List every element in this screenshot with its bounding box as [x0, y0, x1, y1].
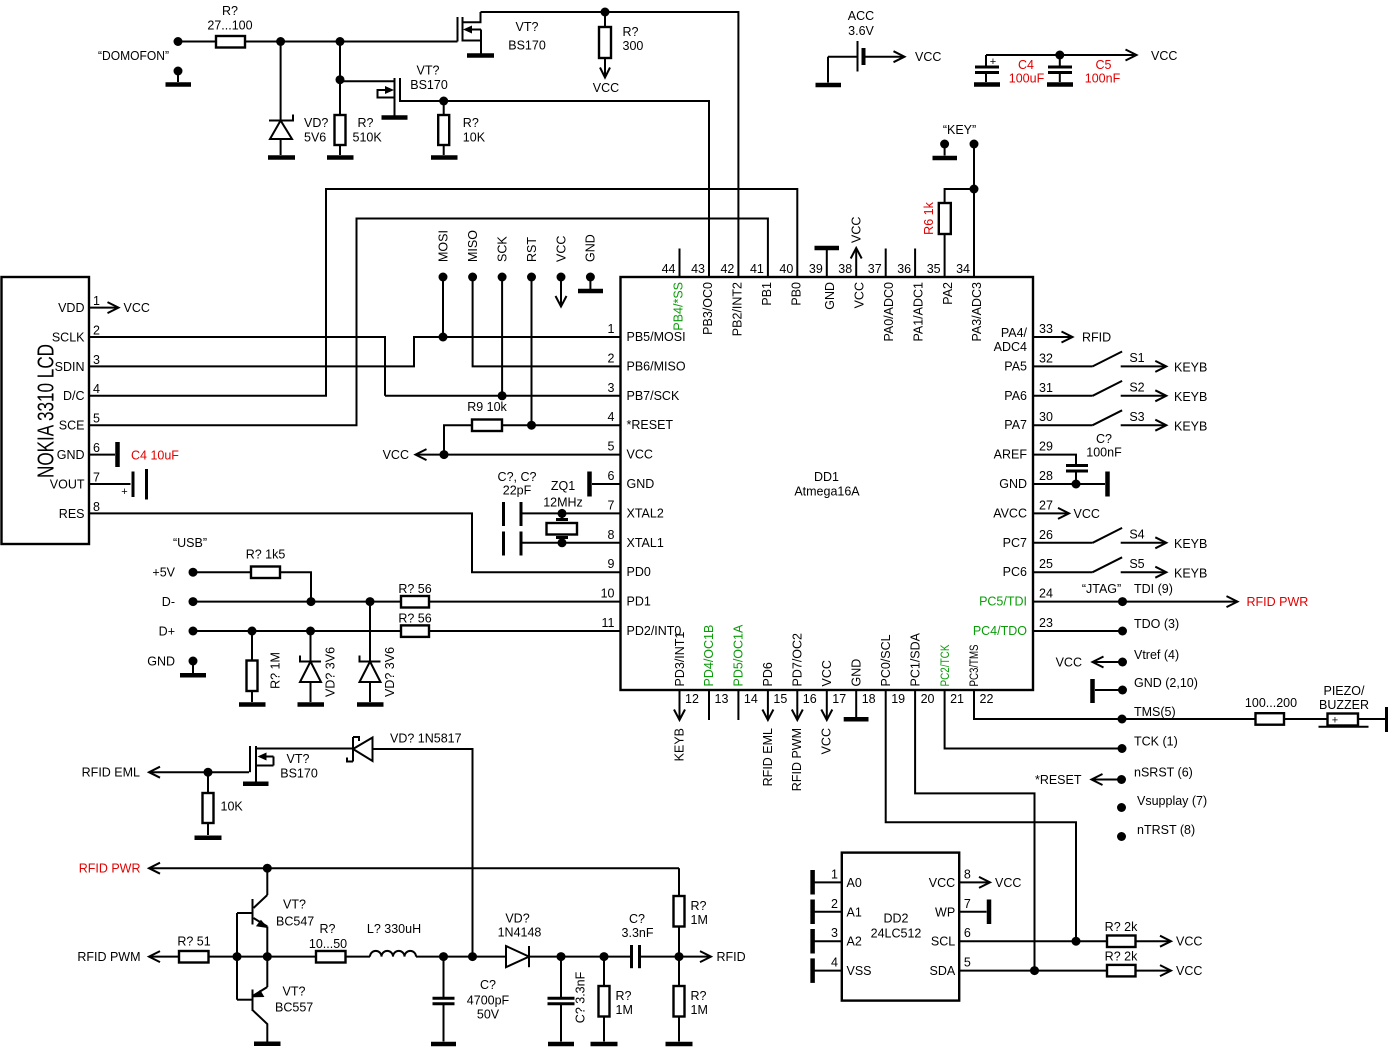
arrow battery to VCC — [866, 50, 942, 64]
svg-text:RFID PWR: RFID PWR — [79, 862, 141, 876]
junction node at 510K — [336, 37, 345, 46]
transistor VT? BS170 (Q2, lower) — [378, 64, 448, 116]
svg-text:Vtref (4): Vtref (4) — [1134, 648, 1179, 662]
svg-text:PD5/OC1A: PD5/OC1A — [732, 624, 746, 686]
transistor VT? BC547 — [237, 868, 314, 956]
MCU right pin 26 PC7 — [1003, 528, 1053, 550]
svg-text:VCC: VCC — [1176, 935, 1202, 949]
transistor VT? BS170 (Q3 RFID EML) — [250, 746, 353, 782]
svg-text:KEYB: KEYB — [1174, 390, 1207, 404]
svg-text:1M: 1M — [691, 1003, 708, 1017]
MCU right pin 29 AREF — [994, 440, 1053, 462]
svg-text:VCC: VCC — [627, 448, 653, 462]
LCD pin 1 VDD — [58, 294, 150, 315]
Vsupplay (7) terminal — [1117, 794, 1207, 812]
svg-text:10: 10 — [601, 587, 615, 601]
MCU right pin 27 AVCC — [993, 498, 1053, 520]
svg-text:VCC: VCC — [554, 236, 568, 262]
svg-text:VCC: VCC — [820, 660, 834, 686]
svg-text:PA1/ADC1: PA1/ADC1 — [911, 282, 925, 342]
svg-text:+: + — [1332, 715, 1338, 727]
junction R1M shunt node — [600, 952, 609, 961]
svg-text:RFID EML: RFID EML — [82, 766, 140, 780]
svg-text:A1: A1 — [847, 905, 862, 919]
svg-text:3: 3 — [831, 926, 838, 940]
svg-text:C?: C? — [480, 978, 496, 992]
arrow to VCC from R300 — [593, 58, 619, 95]
svg-text:13: 13 — [715, 692, 729, 706]
svg-text:VCC: VCC — [1074, 507, 1100, 521]
zener diode VD? 5V6 — [269, 42, 328, 156]
svg-text:VT?: VT? — [516, 20, 539, 34]
svg-text:27: 27 — [1039, 498, 1053, 512]
svg-text:R? 1k5: R? 1k5 — [246, 548, 286, 562]
resistor R? 10...50 — [309, 922, 370, 963]
svg-text:*RESET: *RESET — [627, 418, 674, 432]
svg-text:VT?: VT? — [287, 752, 310, 766]
svg-text:VCC: VCC — [820, 728, 834, 754]
pin 14 stub — [737, 690, 739, 720]
svg-text:PD4/OC1B: PD4/OC1B — [702, 625, 716, 687]
svg-text:510K: 510K — [353, 131, 383, 145]
wire pin 19 PC0/SCL to EEPROM SCL — [886, 690, 1076, 941]
IC DD1 Atmega16A body — [621, 277, 1034, 690]
pin 12 arrow KEYB — [672, 690, 686, 761]
svg-text:18: 18 — [862, 692, 876, 706]
net RFID arrow — [679, 950, 746, 964]
node "KEY" terminals — [940, 123, 978, 149]
ground for VT2 source — [382, 115, 408, 120]
svg-text:GND: GND — [584, 234, 598, 262]
svg-text:3: 3 — [608, 381, 615, 395]
svg-text:R?: R? — [222, 4, 238, 18]
svg-text:3.6V: 3.6V — [848, 24, 874, 38]
svg-text:2: 2 — [608, 351, 615, 365]
ground for VT1 source — [467, 53, 494, 58]
svg-text:12MHz: 12MHz — [543, 496, 583, 510]
capacitor C? 22pF upper — [504, 502, 621, 526]
svg-text:11: 11 — [602, 616, 615, 630]
junction node at zener — [276, 37, 285, 46]
MCU left pin 2 PB6/MISO — [608, 351, 686, 373]
MCU bottom pin 22 PC3/TMS — [969, 644, 993, 706]
svg-text:6: 6 — [964, 926, 971, 940]
svg-text:PIEZO/: PIEZO/ — [1324, 684, 1366, 698]
battery ACC 3.6V — [828, 9, 875, 83]
svg-text:6: 6 — [93, 441, 100, 455]
wire SCLK to PB7/SCK — [89, 337, 385, 396]
svg-text:VCC: VCC — [593, 81, 619, 95]
pin 18 ground — [844, 690, 869, 719]
svg-text:ADC4: ADC4 — [994, 340, 1027, 354]
svg-text:SDA: SDA — [929, 964, 955, 978]
svg-text:VCC: VCC — [124, 301, 150, 315]
svg-text:50V: 50V — [477, 1008, 500, 1022]
svg-text:28: 28 — [1039, 469, 1053, 483]
capacitor C4 10uF on VOUT — [50, 449, 180, 500]
svg-text:1: 1 — [608, 322, 615, 336]
header pin VCC with down arrow — [554, 236, 568, 307]
svg-text:PD1: PD1 — [627, 595, 651, 609]
MCU right pin 28 GND — [999, 469, 1053, 491]
svg-text:ZQ1: ZQ1 — [551, 479, 575, 493]
ground for 510K — [327, 155, 354, 160]
svg-text:1: 1 — [93, 294, 100, 308]
MCU left pin 7 XTAL2 — [608, 498, 664, 520]
svg-text:PC1/SDA: PC1/SDA — [908, 632, 922, 686]
resistor R? 27...100 — [207, 4, 252, 48]
svg-text:7: 7 — [93, 470, 100, 484]
MCU bottom pin 14 PD5/OC1A — [732, 624, 758, 706]
svg-text:9: 9 — [608, 557, 615, 571]
svg-text:PC0/SCL: PC0/SCL — [879, 634, 893, 686]
wire PB7/SCK pin 3 — [385, 391, 621, 400]
header pin MISO — [466, 230, 621, 367]
ground terminal below DOMOFON — [166, 67, 192, 85]
pin 36 PA1/ADC1 stub — [897, 249, 925, 342]
resistor R? 2k (SDA) — [1105, 949, 1203, 978]
svg-text:R9 10k: R9 10k — [467, 400, 507, 414]
svg-text:PC3/TMS: PC3/TMS — [969, 644, 981, 686]
DD2 pin 8 VCC arrow — [929, 867, 1022, 890]
svg-text:nSRST (6): nSRST (6) — [1134, 766, 1193, 780]
svg-text:BC557: BC557 — [275, 1001, 313, 1015]
svg-text:VCC: VCC — [1176, 964, 1202, 978]
svg-text:+5V: +5V — [152, 566, 175, 580]
svg-text:VCC: VCC — [1151, 49, 1177, 63]
svg-text:VT?: VT? — [283, 898, 306, 912]
svg-text:VCC: VCC — [929, 876, 955, 890]
svg-text:XTAL1: XTAL1 — [627, 536, 664, 550]
svg-text:“USB”: “USB” — [173, 536, 207, 550]
svg-text:R6 1k: R6 1k — [922, 201, 936, 234]
svg-text:PA2: PA2 — [941, 282, 955, 305]
resistor 100...200 — [1245, 696, 1328, 725]
svg-text:5: 5 — [608, 440, 615, 454]
svg-text:1N4148: 1N4148 — [498, 926, 542, 940]
svg-text:14: 14 — [744, 692, 758, 706]
MCU right pin 33 PA4/ADC4 — [994, 322, 1053, 354]
TMS(5) node — [1118, 705, 1176, 724]
svg-text:R? 56: R? 56 — [398, 582, 431, 596]
svg-text:VCC: VCC — [852, 282, 866, 308]
svg-text:31: 31 — [1039, 381, 1053, 395]
svg-text:SCL: SCL — [931, 935, 955, 949]
svg-text:R?: R? — [320, 922, 336, 936]
svg-text:SCLK: SCLK — [52, 330, 85, 344]
wire 1N5817 anode down to tank — [373, 749, 473, 957]
svg-text:40: 40 — [779, 262, 793, 276]
ground bar for KEY left terminal — [933, 144, 958, 158]
MCU left pin 11 PD2/INT0 — [602, 616, 682, 638]
wire SCE to PB1 pin 41 — [89, 219, 768, 426]
ground bar MCU pin 6 GND — [590, 472, 621, 497]
resistor R? 1M (shunt at diode) — [599, 957, 633, 1042]
svg-text:7: 7 — [608, 498, 615, 512]
svg-text:R?: R? — [691, 899, 707, 913]
svg-text:WP: WP — [935, 905, 955, 919]
svg-text:35: 35 — [927, 262, 941, 276]
svg-text:RFID: RFID — [717, 950, 746, 964]
header pin MOSI — [436, 230, 450, 337]
junction emitters — [263, 952, 272, 961]
ground for 10K — [195, 836, 222, 841]
terminal D- — [162, 595, 401, 609]
svg-text:AVCC: AVCC — [993, 506, 1027, 520]
svg-text:VOUT: VOUT — [50, 477, 85, 491]
switch S3 on PA7 — [1033, 410, 1207, 434]
svg-text:GND: GND — [147, 655, 175, 669]
pin 35 PA2 — [927, 262, 955, 305]
svg-text:43: 43 — [691, 262, 705, 276]
ground for R 1M — [239, 702, 266, 707]
wire bases join — [233, 913, 242, 1000]
svg-text:R?: R? — [616, 989, 632, 1003]
resistor R? 510K — [335, 42, 383, 156]
MCU right pin 24 PC5/TDI — [979, 587, 1053, 609]
resistor R? 2k (SCL) — [1105, 920, 1203, 949]
svg-text:VT?: VT? — [417, 64, 440, 78]
LCD pin 6 GND — [57, 441, 118, 467]
DD2 pin 5 SDA — [929, 956, 1107, 979]
svg-text:Vsupplay (7): Vsupplay (7) — [1137, 794, 1207, 808]
switch S2 on PA6 — [1033, 380, 1207, 404]
junction RFID node — [675, 952, 684, 961]
ground for C5 — [1047, 82, 1073, 87]
svg-text:“KEY”: “KEY” — [943, 123, 976, 137]
Vtref arrow to VCC — [1056, 648, 1180, 670]
svg-text:21: 21 — [950, 692, 964, 706]
pin 27 AVCC arrow VCC — [1033, 507, 1100, 521]
wire pin 28 GND with ground bar — [1033, 472, 1108, 497]
svg-text:2: 2 — [831, 897, 838, 911]
pin 44 PB4/*SS stub — [662, 249, 686, 331]
terminal GND (USB) — [147, 655, 206, 676]
svg-text:12: 12 — [685, 692, 699, 706]
zener diode VD? 3V6 (on D-) — [360, 602, 398, 702]
svg-text:RES: RES — [59, 507, 85, 521]
svg-text:RFID PWM: RFID PWM — [790, 728, 804, 791]
svg-text:VCC: VCC — [1056, 656, 1082, 670]
ground for Q3 source — [243, 782, 269, 787]
svg-text:RFID PWM: RFID PWM — [77, 950, 140, 964]
svg-text:R? 1M: R? 1M — [269, 652, 283, 689]
zener diode VD? 3V6 (on D+) — [300, 631, 338, 702]
svg-text:R? 2k: R? 2k — [1105, 920, 1138, 934]
MCU left pin 3 PB7/SCK — [608, 381, 680, 403]
svg-text:PC2/TCK: PC2/TCK — [940, 644, 952, 686]
svg-text:VD? 3V6: VD? 3V6 — [383, 647, 397, 697]
MCU left pin 8 XTAL1 — [608, 528, 664, 550]
wire pin 24 TDI to RFID PWR — [1033, 582, 1308, 609]
svg-text:38: 38 — [838, 262, 852, 276]
connector NOKIA 3310 LCD — [2, 277, 90, 544]
pin 13 stub — [708, 690, 710, 720]
svg-text:1M: 1M — [691, 913, 708, 927]
GND (2,10) terminal — [1093, 676, 1198, 703]
ground for BC557 collector — [254, 1042, 281, 1047]
svg-text:GND: GND — [849, 659, 863, 687]
svg-text:BS170: BS170 — [410, 78, 448, 92]
svg-text:1M: 1M — [616, 1003, 633, 1017]
resistor R6 1k — [922, 201, 951, 277]
svg-text:5: 5 — [93, 412, 100, 426]
svg-text:KEYB: KEYB — [1174, 361, 1207, 375]
svg-text:17: 17 — [832, 692, 846, 706]
svg-text:VD? 3V6: VD? 3V6 — [324, 647, 338, 697]
DD2 pin 1 A0 — [813, 867, 862, 894]
svg-text:VCC: VCC — [383, 448, 409, 462]
svg-text:XTAL2: XTAL2 — [627, 506, 664, 520]
svg-text:PC5/TDI: PC5/TDI — [979, 595, 1027, 609]
svg-text:4: 4 — [93, 382, 100, 396]
svg-text:41: 41 — [750, 262, 764, 276]
wire SDIN to PB5/MOSI — [89, 337, 621, 366]
pin 38 VCC with up arrow — [838, 217, 866, 309]
svg-text:S1: S1 — [1129, 351, 1144, 365]
svg-text:AREF: AREF — [994, 448, 1028, 462]
svg-text:MISO: MISO — [466, 230, 480, 262]
svg-text:PB5/MOSI: PB5/MOSI — [627, 330, 686, 344]
capacitor C4 100uF — [975, 55, 1045, 86]
transistor VT? BC557 — [237, 957, 313, 1042]
svg-text:PB1: PB1 — [760, 282, 774, 306]
svg-text:PC7: PC7 — [1003, 536, 1027, 550]
wire pin 20 PC1/SDA to EEPROM SDA — [915, 690, 1034, 971]
svg-text:24: 24 — [1039, 587, 1053, 601]
svg-text:VDD: VDD — [58, 301, 84, 315]
svg-text:PA0/ADC0: PA0/ADC0 — [882, 282, 896, 342]
svg-text:32: 32 — [1039, 351, 1053, 365]
svg-text:R?: R? — [623, 25, 639, 39]
wire D/C to PB0 pin 40 — [89, 189, 797, 396]
resistor R? 1M (on D+) — [247, 631, 283, 702]
net RFID EML arrow — [82, 766, 249, 780]
svg-text:22: 22 — [980, 692, 994, 706]
LCD pin 2 SCLK — [52, 323, 100, 344]
svg-text:RFID PWR: RFID PWR — [1247, 595, 1309, 609]
ground for shunt 3.3nF — [548, 1042, 574, 1047]
svg-text:C?: C? — [1096, 432, 1112, 446]
svg-text:BS170: BS170 — [508, 39, 546, 53]
svg-text:24LC512: 24LC512 — [871, 927, 922, 941]
svg-text:37: 37 — [868, 262, 882, 276]
svg-text:VCC: VCC — [849, 217, 863, 243]
svg-text:PA5: PA5 — [1004, 359, 1027, 373]
junction C4700 node — [439, 952, 448, 961]
resistor R? 56 (D-) — [398, 582, 620, 608]
svg-text:42: 42 — [720, 262, 734, 276]
svg-text:nTRST (8): nTRST (8) — [1137, 823, 1195, 837]
svg-text:7: 7 — [964, 897, 971, 911]
pin 17 arrow VCC — [820, 690, 834, 754]
piezo/buzzer — [1319, 684, 1387, 732]
MCU bottom pin 20 PC1/SDA — [908, 632, 934, 706]
wire pin 22 PC3/TMS to TMS — [974, 690, 1256, 719]
svg-text:34: 34 — [956, 262, 970, 276]
inductor L? 330uH — [367, 922, 506, 957]
svg-text:“JTAG”: “JTAG” — [1082, 582, 1121, 596]
svg-text:PB0: PB0 — [790, 282, 804, 306]
DD2 pin 2 A1 — [813, 897, 862, 924]
svg-text:VD? 1N5817: VD? 1N5817 — [390, 732, 462, 746]
resistor R? 1M (at RFID node) — [674, 957, 708, 1042]
svg-text:*RESET: *RESET — [1035, 773, 1082, 787]
svg-text:DD2: DD2 — [883, 912, 908, 926]
MCU bottom pin 16 PD7/OC2 — [791, 633, 817, 706]
svg-text:DD1: DD1 — [814, 470, 839, 484]
svg-text:“DOMOFON”: “DOMOFON” — [98, 49, 169, 63]
svg-text:100uF: 100uF — [1009, 72, 1045, 86]
svg-text:C4 10uF: C4 10uF — [131, 449, 179, 463]
svg-text:27...100: 27...100 — [207, 19, 252, 33]
svg-text:33: 33 — [1039, 322, 1053, 336]
svg-text:36: 36 — [897, 262, 911, 276]
ground for 10K — [431, 155, 458, 160]
svg-text:PA3/ADC3: PA3/ADC3 — [970, 282, 984, 342]
svg-text:GND: GND — [57, 448, 85, 462]
svg-text:R? 2k: R? 2k — [1105, 949, 1138, 963]
MCU right pin 25 PC6 — [1003, 557, 1053, 579]
svg-text:PD7/OC2: PD7/OC2 — [791, 633, 805, 687]
svg-text:RFID EML: RFID EML — [761, 728, 775, 786]
MCU right pin 31 PA6 — [1004, 381, 1053, 403]
wire *RESET pin 4 — [502, 421, 621, 430]
svg-text:100nF: 100nF — [1086, 446, 1122, 460]
svg-text:10K: 10K — [463, 131, 486, 145]
svg-text:1: 1 — [831, 867, 838, 881]
svg-text:5V6: 5V6 — [304, 131, 326, 145]
svg-text:4: 4 — [831, 956, 838, 970]
svg-text:+: + — [990, 56, 996, 68]
ground for R1M at RFID — [666, 1042, 693, 1047]
svg-text:MOSI: MOSI — [436, 230, 450, 262]
svg-text:R?: R? — [358, 116, 374, 130]
LCD pin 5 SCE — [59, 412, 100, 433]
LCD pin 8 RES — [59, 500, 100, 521]
switch S1 on PA5 — [1033, 351, 1207, 375]
svg-text:R?: R? — [463, 116, 479, 130]
svg-text:R?: R? — [691, 989, 707, 1003]
resistor R9 10k — [444, 400, 508, 455]
wire KEY node to R6 — [945, 189, 974, 203]
svg-text:RST: RST — [525, 237, 539, 262]
wire KEY to pin 34 — [970, 144, 979, 277]
LCD pin 4 D/C — [63, 382, 100, 403]
net RFID PWR arrow (left) — [79, 862, 679, 876]
nSRST arrow to *RESET — [1035, 766, 1193, 788]
svg-text:+: + — [121, 486, 127, 498]
MCU bottom pin 18 GND — [849, 659, 875, 706]
svg-text:100nF: 100nF — [1085, 72, 1121, 86]
junction shunt cap node — [557, 952, 566, 961]
wire C4/C5 rail — [986, 54, 1134, 56]
wire VCC pin 5 with arrow — [383, 448, 621, 462]
svg-text:VCC: VCC — [915, 50, 941, 64]
svg-text:R? 56: R? 56 — [398, 611, 431, 625]
capacitor C? 22pF lower — [504, 532, 621, 556]
svg-text:S3: S3 — [1129, 410, 1144, 424]
junction 1N5817 node — [468, 952, 477, 961]
svg-text:PB6/MISO: PB6/MISO — [627, 359, 686, 373]
svg-text:R? 51: R? 51 — [177, 935, 210, 949]
svg-text:PD3/INT1: PD3/INT1 — [673, 632, 687, 687]
MCU bottom pin 21 PC2/TCK — [940, 644, 964, 706]
svg-text:S4: S4 — [1129, 527, 1144, 541]
MCU left pin 5 VCC — [608, 440, 653, 462]
svg-text:16: 16 — [803, 692, 817, 706]
svg-text:BS170: BS170 — [280, 767, 318, 781]
